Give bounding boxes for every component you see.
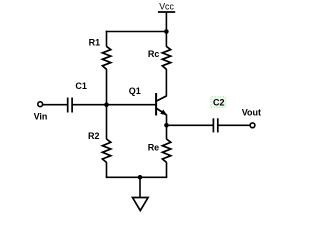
- terminal Vin: [38, 102, 43, 107]
- wire Re bottom: [166, 162, 168, 177]
- resistor Re: [162, 139, 170, 162]
- resistor R1: [102, 46, 110, 69]
- wire top rail: [106, 31, 167, 33]
- junction Vcc/R1/Rc: [164, 29, 169, 34]
- label C2 highlight: [211, 97, 226, 108]
- junction ground node: [138, 175, 143, 180]
- resistor R2: [102, 139, 110, 162]
- wire Vcc stub: [165, 12, 167, 32]
- wire C2 to Vout: [218, 124, 250, 126]
- svg-text:Vin: Vin: [34, 112, 48, 122]
- junction emitter node: [164, 123, 169, 128]
- svg-text:Vout: Vout: [242, 108, 261, 118]
- wire R2 bottom: [106, 162, 108, 177]
- wire ground stub: [139, 177, 141, 197]
- junction base node: [104, 102, 109, 107]
- wire collector: [165, 69, 167, 96]
- svg-text:R2: R2: [88, 131, 100, 141]
- wire Re top: [166, 125, 168, 139]
- wire base: [107, 104, 156, 106]
- resistor Rc: [162, 46, 170, 69]
- svg-text:C1: C1: [75, 81, 87, 91]
- wire R1 top: [106, 31, 108, 47]
- svg-text:R1: R1: [89, 38, 101, 48]
- wire bottom rail: [106, 176, 168, 178]
- wire C1 to base junction: [72, 104, 106, 106]
- svg-text:Q1: Q1: [129, 86, 141, 96]
- power Vcc bar: [158, 11, 175, 13]
- svg-text:Vcc: Vcc: [159, 1, 174, 11]
- ground: [133, 198, 149, 211]
- wire R1 bottom to R2 top (through base junction): [106, 69, 108, 139]
- svg-text:Re: Re: [148, 142, 160, 152]
- transistor Q1: [156, 93, 168, 116]
- capacitor C2: [212, 118, 214, 132]
- svg-text:Rc: Rc: [148, 49, 160, 59]
- svg-text:C2: C2: [213, 97, 225, 107]
- wire Vin to C1: [43, 104, 68, 106]
- wire Rc top: [165, 32, 167, 47]
- capacitor C1: [67, 98, 69, 113]
- wire emitter: [166, 115, 168, 126]
- wire emitter to C2: [167, 124, 214, 126]
- terminal Vout: [250, 123, 255, 128]
